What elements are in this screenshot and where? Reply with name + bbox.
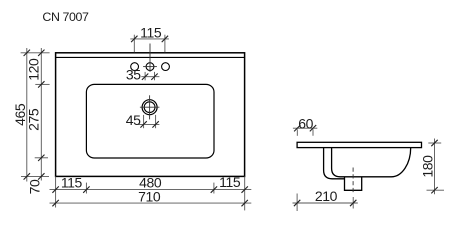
drain stub [345, 177, 362, 190]
dimension 60: line [293, 127, 317, 129]
dimension 210: tick left [294, 200, 300, 206]
dimension 35: extension left [144, 72, 146, 80]
tick inner basin top [38, 81, 44, 87]
dimension 35: line [141, 76, 159, 78]
bowl inner wall [332, 148, 411, 177]
faucet hole center [146, 63, 154, 71]
svg-text:35: 35 [126, 67, 141, 83]
dimension 115 top: extension left [133, 35, 135, 53]
dimension 60: extension right [312, 129, 314, 136]
dimension 35: extension right [154, 72, 156, 80]
bottom row 1 extension at rect left [55, 176, 57, 207]
dimension 180: line [434, 139, 436, 195]
svg-text:120: 120 [26, 58, 42, 81]
bottom extension at rect right [244, 176, 246, 210]
dimension 45: tick left [140, 121, 146, 127]
dimension 60: extension left [296, 129, 298, 136]
left dimension line 120/275/70 (inner) [40, 48, 42, 181]
dimension 115 top: line [130, 38, 169, 40]
dimension 60: tick left [294, 125, 300, 131]
bowl outer wall [324, 148, 345, 179]
bottom row 1 extension at basin left [85, 183, 87, 194]
dimension 180: extension bottom [427, 189, 445, 191]
tick 465 bottom [24, 173, 30, 179]
dimension 180: tick bottom [431, 187, 437, 193]
svg-text:710: 710 [138, 188, 161, 204]
center hole crosshair vertical [149, 44, 151, 72]
dimension 45: tick right [152, 121, 158, 127]
svg-text:60: 60 [298, 116, 313, 132]
svg-text:115: 115 [219, 174, 241, 190]
row2 tick right [242, 200, 248, 206]
dimension 210: extension left [296, 194, 298, 212]
dimension 35: tick right [151, 74, 157, 80]
tick inner basin bottom [38, 155, 44, 161]
dimension 115 top: extension right [164, 35, 166, 53]
svg-text:210: 210 [315, 188, 338, 204]
center hole crosshair horizontal [143, 66, 157, 68]
dimension 210: tick right [350, 200, 356, 206]
row1 tick 2 [83, 186, 89, 192]
left extension at basin top [35, 83, 49, 85]
dimension 115 top: tick right [162, 36, 168, 42]
faucet hole left [131, 63, 139, 71]
svg-text:275: 275 [26, 108, 42, 131]
drain centerline dashed [352, 168, 354, 194]
dimension 35: tick left [142, 74, 148, 80]
bottom dimension row 2: line [50, 202, 252, 204]
dimension 210: line [293, 202, 358, 204]
bottom row 1 extension at basin right [213, 183, 215, 194]
dimension 210: extension right [352, 197, 354, 209]
drain crosshair horizontal [140, 106, 160, 108]
dimension 45: line [138, 123, 160, 125]
row2 tick left [52, 200, 58, 206]
row1 tick 3 [211, 186, 217, 192]
svg-text:115: 115 [61, 175, 83, 191]
dimension 180: tick top [431, 140, 437, 146]
dimension 180: extension top [428, 142, 441, 144]
left extension at rect top [21, 52, 50, 54]
tick 465 top [24, 50, 30, 56]
countertop front rim line [56, 56, 245, 58]
svg-text:115: 115 [140, 24, 162, 40]
row1 tick 4 [242, 186, 248, 192]
svg-text:CN 7007: CN 7007 [42, 10, 89, 24]
countertop slab [297, 142, 421, 147]
svg-text:45: 45 [126, 112, 141, 128]
left extension at rect bottom [21, 175, 49, 177]
faucet hole right [162, 63, 170, 71]
basin inner rounded rectangle [86, 84, 214, 158]
dimension 60: tick right [310, 125, 316, 131]
countertop outer rectangle [56, 53, 245, 177]
svg-text:180: 180 [419, 155, 435, 178]
bottom dimension row 1: line [50, 189, 252, 191]
tick inner rect bottom [38, 173, 44, 179]
row1 tick 1 [52, 186, 58, 192]
svg-text:465: 465 [12, 103, 28, 126]
drain hole outer circle [142, 100, 157, 115]
svg-text:70: 70 [26, 179, 42, 194]
left dimension line 465 (outer) [26, 48, 28, 182]
drain crosshair vertical [149, 95, 151, 119]
tick inner top [38, 50, 44, 56]
dimension 45: extension right [155, 115, 157, 128]
dimension 115 top: tick left [131, 36, 137, 42]
dimension 45: extension left [143, 115, 145, 128]
drain hole inner circle [144, 102, 155, 113]
left extension at basin bottom [35, 157, 48, 159]
